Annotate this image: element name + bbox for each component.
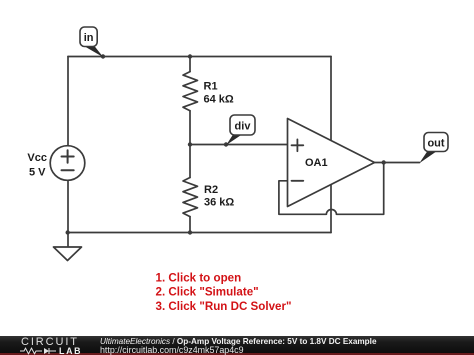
footer bar — [0, 336, 474, 353]
node label out — [419, 133, 448, 164]
svg-text:R1: R1 — [204, 81, 218, 93]
label R2 value — [204, 184, 234, 209]
svg-text:out: out — [427, 138, 444, 150]
svg-text:5 V: 5 V — [29, 167, 46, 179]
op-amp OA1 — [288, 119, 375, 207]
svg-text:2. Click "Simulate": 2. Click "Simulate" — [156, 286, 259, 299]
junction: R2 bottom on bottom rail — [188, 230, 192, 234]
annotation: red instructions — [156, 272, 292, 313]
ground — [54, 233, 82, 261]
label R1 value — [204, 81, 234, 106]
svg-text:3. Click "Run DC Solver": 3. Click "Run DC Solver" — [156, 300, 292, 313]
resistor R1 — [183, 57, 198, 145]
svg-text:R2: R2 — [204, 184, 218, 196]
junction: Vcc negative to ground — [66, 230, 70, 234]
wire: op-amp V- supply drop to bottom rail — [330, 185, 332, 233]
svg-text:36 kΩ: 36 kΩ — [204, 197, 234, 209]
svg-text:Vcc: Vcc — [27, 152, 47, 164]
voltage source V1 Vcc 5V — [50, 146, 85, 181]
node label div — [226, 115, 255, 145]
svg-text:OA1: OA1 — [305, 157, 328, 169]
logo symbol: resistor + diode — [20, 347, 60, 355]
label Vcc value — [27, 152, 47, 179]
node label in — [80, 27, 103, 57]
resistor R2 — [183, 145, 198, 233]
junction: op-amp output feedback tap — [382, 160, 386, 164]
wire: mid rail div node — [190, 144, 288, 146]
wire: op-amp V+ supply drop — [330, 57, 332, 141]
junction: R1/R2 divider node — [188, 142, 192, 146]
wire: top rail from left branch to op-amp V+ drop — [68, 56, 331, 58]
wire: left vertical below Vcc — [67, 181, 69, 233]
svg-text:div: div — [235, 120, 252, 132]
CircuitLab logo text — [21, 336, 81, 348]
wire: feedback from output down and to inverting input, hop over supply wire — [279, 163, 384, 215]
svg-text:64 kΩ: 64 kΩ — [204, 94, 234, 106]
junction: node div label tap — [224, 142, 228, 146]
svg-text:1. Click to open: 1. Click to open — [156, 272, 242, 285]
junction: R1 top on top rail — [188, 54, 192, 58]
wire: left vertical above Vcc — [67, 57, 69, 147]
svg-text:in: in — [84, 32, 94, 44]
bottom rail wire — [68, 232, 331, 234]
junction: node in label tap — [101, 54, 105, 58]
wire: output — [375, 162, 420, 164]
